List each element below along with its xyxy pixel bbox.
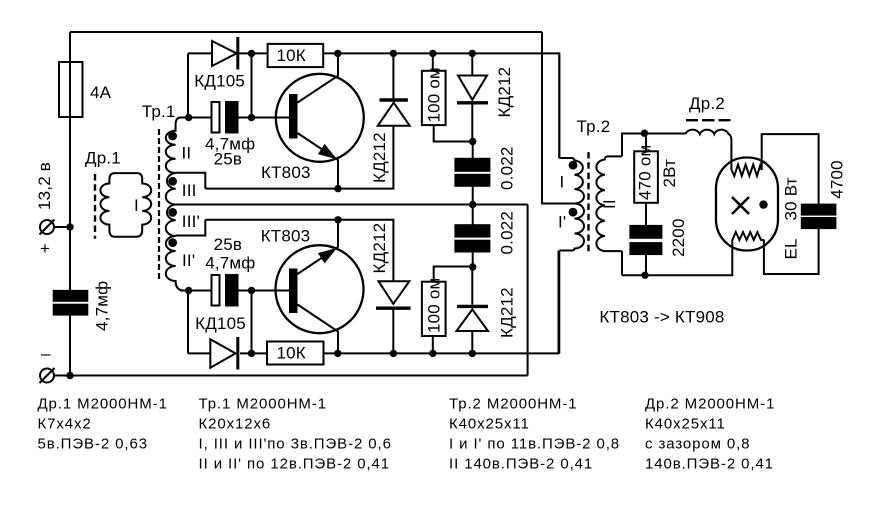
transformer Tr2 primary windings I I' xyxy=(559,158,584,251)
svg-text:4А: 4А xyxy=(90,83,112,102)
svg-text:470 ом: 470 ом xyxy=(636,145,655,200)
svg-text:I и I' по 11в.ПЭВ-2 0,8: I и I' по 11в.ПЭВ-2 0,8 xyxy=(449,436,620,453)
svg-text:25в: 25в xyxy=(214,235,243,254)
capacitor C4 0.022 lower xyxy=(455,225,489,236)
node lower r100 bottom xyxy=(429,350,436,357)
svg-text:10К: 10К xyxy=(277,344,306,363)
svg-text:II 140в.ПЭВ-2 0,41: II 140в.ПЭВ-2 0,41 xyxy=(449,456,593,473)
wire KD105 lower anode riser xyxy=(187,291,189,354)
svg-text:КД212: КД212 xyxy=(498,287,517,338)
node lower base bias xyxy=(248,287,255,294)
node lower collector xyxy=(334,350,341,357)
wire lower emitter bus xyxy=(205,220,393,281)
resistor R4 100om lower xyxy=(422,282,446,336)
terminal - input xyxy=(40,369,54,383)
resistor R2 10K lower xyxy=(267,342,324,365)
svg-text:0.022: 0.022 xyxy=(498,146,517,190)
node Tr2 winding I start xyxy=(569,161,578,170)
wire output top to Dr2 xyxy=(644,133,685,135)
capacitor C5 4.7uF 25v lower xyxy=(212,275,220,306)
svg-text:II: II xyxy=(600,199,619,209)
svg-text:КТ803 -> КТ908: КТ803 -> КТ908 xyxy=(599,308,724,327)
svg-text:КД212: КД212 xyxy=(370,223,389,274)
diode VD5 KD212 upper-right xyxy=(471,53,473,75)
inductor Dr2 winding xyxy=(685,130,731,170)
node Tr1 winding II' start xyxy=(168,238,177,247)
node upper diode top xyxy=(390,50,397,57)
wire lower collector bus xyxy=(188,352,210,354)
node upper vd5 top xyxy=(469,50,476,57)
wire Tr2 primary bottom feed xyxy=(558,251,560,354)
diode VD2 KD105 lower xyxy=(210,339,235,368)
lamp top filament zigzag xyxy=(732,165,762,177)
wire lamp right bottom xyxy=(764,228,819,274)
svg-text:К20х12х6: К20х12х6 xyxy=(199,416,272,433)
wire Tr1 center tap to riser xyxy=(176,204,528,206)
resistor R3 100om upper xyxy=(422,71,446,125)
wire lamp right top xyxy=(762,134,819,205)
svg-text:III: III xyxy=(182,181,197,200)
inductor Dr1 winding I barrel xyxy=(100,173,151,237)
resistor R1 10K upper xyxy=(268,44,324,67)
node C c4-vd6 xyxy=(469,263,476,270)
wire Tr2 secondary top out xyxy=(622,134,643,157)
svg-text:Тр.1 М2000НМ-1: Тр.1 М2000НМ-1 xyxy=(199,396,327,413)
svg-text:13,2 в: 13,2 в xyxy=(35,162,54,210)
svg-text:КД212: КД212 xyxy=(370,132,389,183)
node upper base left xyxy=(185,114,192,121)
svg-text:I, III и III'по 3в.ПЭВ-2 0,6: I, III и III'по 3в.ПЭВ-2 0,6 xyxy=(199,436,392,453)
svg-text:Др.1 М2000НМ-1: Др.1 М2000НМ-1 xyxy=(38,396,168,413)
svg-text:Др.2: Др.2 xyxy=(689,94,725,113)
capacitor C1 4.7uF input xyxy=(54,291,88,301)
wire Tr2 primary top feed xyxy=(558,53,560,158)
wire lower bias riser xyxy=(251,291,253,354)
capacitor C7 4700 xyxy=(802,205,836,215)
svg-text:Тр.2: Тр.2 xyxy=(577,117,611,136)
svg-text:0.022: 0.022 xyxy=(498,211,517,255)
wire top bus xyxy=(70,31,542,33)
node Tr1 winding II start xyxy=(168,132,177,141)
node upper collector xyxy=(334,50,341,57)
svg-text:II: II xyxy=(182,144,192,163)
node upper r100 top xyxy=(429,50,436,57)
node lower emitter xyxy=(334,216,341,223)
transformer Tr2 core dashed xyxy=(587,152,589,252)
svg-text:К7х4х2: К7х4х2 xyxy=(38,416,92,433)
wire upper collector bus xyxy=(188,52,212,54)
capacitor C6 2200 xyxy=(630,226,661,238)
svg-text:100 ом: 100 ом xyxy=(425,278,444,333)
svg-text:25в: 25в xyxy=(214,149,243,168)
lamp cross mark xyxy=(732,197,749,214)
node output bottom xyxy=(641,272,648,279)
node upper bias top xyxy=(248,50,255,57)
wire center-tap ground riser xyxy=(527,205,529,376)
svg-text:5в.ПЭВ-2 0,63: 5в.ПЭВ-2 0,63 xyxy=(38,436,148,453)
node A r100-c3 xyxy=(469,138,476,145)
wire upper base xyxy=(180,117,212,119)
svg-text:К40х25х11: К40х25х11 xyxy=(449,416,530,433)
node plus-bus xyxy=(66,223,73,230)
svg-text:КТ803: КТ803 xyxy=(261,227,311,246)
inductor Dr1 core dashed xyxy=(94,174,96,239)
inductor Dr2 core dashed xyxy=(686,119,731,121)
diode VD4 KD212 lower-left xyxy=(379,281,410,304)
svg-text:I': I' xyxy=(558,213,566,232)
resistor R5 470om xyxy=(634,151,658,203)
svg-text:100 ом: 100 ом xyxy=(425,67,444,122)
lamp starter dot xyxy=(759,200,767,208)
node upper base bias xyxy=(248,114,255,121)
svg-text:2200: 2200 xyxy=(669,218,688,257)
transistor VT2 KT803 lower xyxy=(276,245,364,333)
wire bottom bus xyxy=(54,375,528,377)
diode VD3 KD212 upper-left xyxy=(380,98,408,101)
svg-text:Др.1: Др.1 xyxy=(85,149,121,168)
node Tr2 winding I' start xyxy=(569,208,578,217)
svg-text:Тр.1: Тр.1 xyxy=(142,102,176,121)
transformer Tr2 secondary winding II xyxy=(596,156,622,251)
capacitor C3 0.022 upper xyxy=(455,159,489,171)
transistor VT1 KT803 upper xyxy=(276,74,364,162)
wire Tr2 secondary bottom out xyxy=(621,251,623,275)
node lower bias bottom xyxy=(248,350,255,357)
wire upper bias riser xyxy=(251,53,253,117)
diode VD6 KD212 lower-right xyxy=(471,268,473,305)
wire KD105 upper anode riser xyxy=(187,53,189,117)
node lower base left xyxy=(185,287,192,294)
node Tr1 winding III' start xyxy=(168,208,177,217)
terminal + input xyxy=(40,220,54,234)
transformer Tr1 core dashed xyxy=(158,129,160,281)
svg-text:II': II' xyxy=(182,251,195,270)
node upper emitter xyxy=(334,185,341,192)
svg-text:+: + xyxy=(40,239,50,258)
diode VD1 KD105 upper xyxy=(212,41,237,66)
wire upper emitter bus xyxy=(205,126,393,189)
wire top bus drop to Tr2 center tap xyxy=(542,32,575,204)
svg-text:4,7мф: 4,7мф xyxy=(205,254,255,273)
svg-text:Тр.2 М2000НМ-1: Тр.2 М2000НМ-1 xyxy=(449,396,577,413)
wire left bus lower xyxy=(69,315,71,376)
svg-text:–: – xyxy=(41,344,51,363)
svg-text:III': III' xyxy=(182,212,200,231)
svg-text:Др.2 М2000НМ-1: Др.2 М2000НМ-1 xyxy=(645,396,775,413)
lamp bottom filament zigzag xyxy=(732,232,764,240)
svg-text:КД105: КД105 xyxy=(195,314,246,333)
svg-text:4,7мф: 4,7мф xyxy=(93,281,112,331)
node lower diode bottom xyxy=(390,350,397,357)
transformer Tr1 left windings II III III' II' xyxy=(166,118,189,291)
capacitor C2 4.7uF 25v upper xyxy=(212,102,220,133)
wire output bottom bus xyxy=(622,240,732,276)
wire left bus xyxy=(69,32,71,291)
wire Tr1 winding III tap xyxy=(176,173,206,189)
svg-text:КТ803: КТ803 xyxy=(261,163,311,182)
node Tr1 winding III start xyxy=(168,177,177,186)
node output top xyxy=(641,130,648,137)
svg-text:EL: EL xyxy=(782,238,801,259)
lamp EL outline xyxy=(716,158,778,251)
wire Tr1 winding III' tap xyxy=(176,220,206,236)
fuse F1 4A xyxy=(59,62,83,117)
svg-text:140в.ПЭВ-2 0,41: 140в.ПЭВ-2 0,41 xyxy=(645,456,774,473)
svg-text:10К: 10К xyxy=(277,46,306,65)
svg-text:К40х25х11: К40х25х11 xyxy=(645,416,726,433)
svg-text:КД212: КД212 xyxy=(495,67,514,118)
svg-text:30 Вт: 30 Вт xyxy=(782,177,801,220)
svg-text:I: I xyxy=(134,196,139,215)
svg-text:с зазором 0,8: с зазором 0,8 xyxy=(645,436,751,453)
node minus-bus xyxy=(66,372,73,379)
svg-text:КД105: КД105 xyxy=(194,72,245,91)
svg-text:2Вт: 2Вт xyxy=(660,159,679,188)
svg-text:4700: 4700 xyxy=(828,160,847,199)
svg-text:I: I xyxy=(560,173,565,192)
wire lower base xyxy=(180,290,212,292)
svg-text:II и II' по 12в.ПЭВ-2 0,41: II и II' по 12в.ПЭВ-2 0,41 xyxy=(199,456,391,473)
node lower vd6 bottom xyxy=(469,350,476,357)
node B center caps xyxy=(469,201,476,208)
